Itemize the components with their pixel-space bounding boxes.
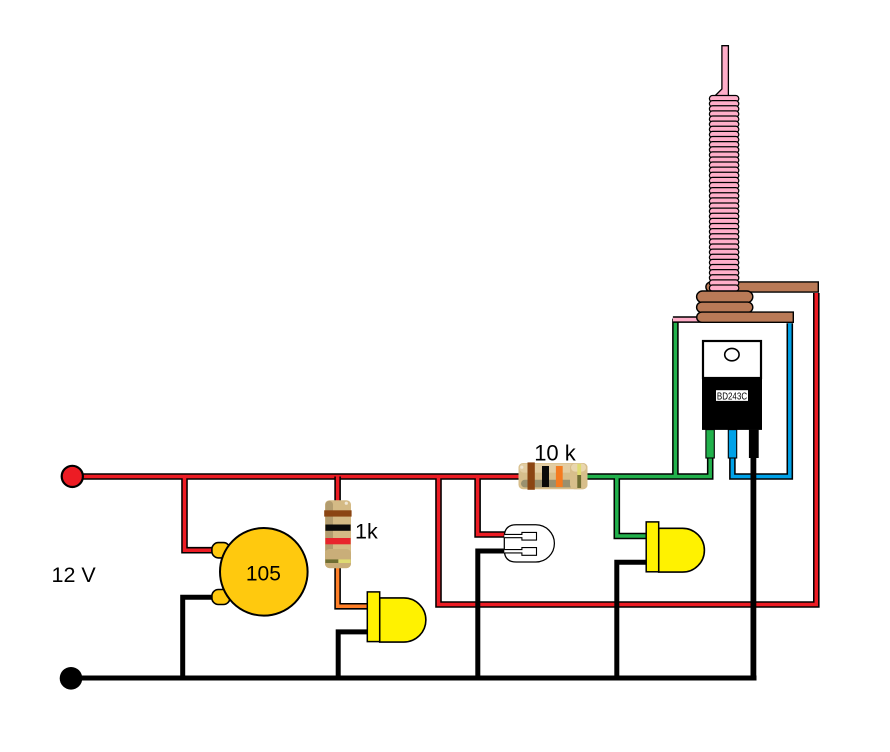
wire: blue collector wire to primary coil outline <box>732 323 789 476</box>
resistor R1 band 4 (gold) <box>577 464 581 488</box>
resistor R2 band 2 (black) <box>325 525 350 531</box>
node: ground terminal (black) <box>60 667 83 690</box>
primary winding turn 2 (brown) <box>697 302 753 312</box>
wire: green base wire from 10k resistor outline <box>586 450 710 477</box>
resistor R2 band 3 (red) <box>325 538 350 544</box>
wire: orange lead from 1k resistor to LED D1 outline <box>338 564 368 606</box>
wire: primary coil bottom lead (brown bar to collector) <box>697 312 794 322</box>
LED D1 flange (yellow) <box>367 592 379 642</box>
wire: red branch to capacitor fill <box>185 477 215 551</box>
resistor R2 band 1 (brown) <box>324 510 351 516</box>
wire: red feed loop to primary coil fill <box>439 293 817 605</box>
wire: red feed loop to primary coil outline <box>439 293 817 605</box>
resistor R1 band 3 (orange) <box>556 466 563 487</box>
wire: secondary coil bottom lead (pink) outline <box>673 316 714 323</box>
wire: blue collector wire to primary coil fill <box>732 323 789 476</box>
resistor R2 band 4 (gold) <box>325 559 350 563</box>
wire: secondary coil top lead (pink) <box>714 46 728 97</box>
wire: orange lead from 1k resistor to LED D1 fill <box>338 564 368 606</box>
indicator lamp cathode lead <box>504 548 536 556</box>
wire: 1k resistor top lead (red) fill <box>336 477 340 506</box>
wire: green branch to LED D2 fill <box>617 477 647 537</box>
node: +12V terminal (red) <box>62 466 83 487</box>
wire: green branch to secondary coil fill <box>674 319 678 477</box>
LED D2 dome (yellow) <box>659 528 705 572</box>
transistor Q1 emitter pin (black) <box>749 430 759 458</box>
wire: red branch to indicator lamp fill <box>478 477 505 535</box>
svg-text:BD243C: BD243C <box>717 392 748 403</box>
transistor Q1 label plate <box>716 390 748 401</box>
svg-text:12 V: 12 V <box>52 563 97 587</box>
capacitor C1 top lead tab <box>212 543 230 558</box>
wire: red branch to indicator lamp outline <box>478 477 505 535</box>
wire: transistor emitter lead to ground <box>751 450 757 681</box>
wire: black branch from indicator lamp <box>478 551 505 680</box>
primary winding turn 1 (brown) <box>697 291 753 303</box>
svg-text:105: 105 <box>246 563 281 586</box>
svg-text:1k: 1k <box>355 520 378 544</box>
svg-text:10 k: 10 k <box>534 440 577 465</box>
wire: black branch from LED D2 <box>617 562 647 680</box>
wire: 1k resistor top lead (red) outline <box>334 477 341 506</box>
wire: +12V rail (red) outline <box>82 473 519 480</box>
transistor Q1 BD243C tab <box>703 341 761 378</box>
resistor R1 10k body <box>519 463 588 489</box>
transistor Q1 base pin (green) <box>706 430 714 458</box>
wire: secondary coil bottom lead (pink) fill <box>673 318 714 322</box>
LED D2 flange (yellow) <box>646 522 659 572</box>
wire: black branch from LED D1 <box>338 632 368 680</box>
indicator lamp (white LED) body <box>504 525 554 562</box>
resistor R2 1k body <box>325 500 351 568</box>
wire: green base wire from 10k resistor fill <box>586 450 710 477</box>
wire: +12V rail (red) fill <box>82 475 519 479</box>
transistor Q1 body <box>702 378 762 430</box>
wire: primary coil top lead (brown bar to red feed) <box>706 282 818 292</box>
secondary coil winding (pink turns) <box>709 96 738 292</box>
wire: ground rail (black) <box>81 676 757 681</box>
resistor R1 band 2 (black) <box>542 466 549 487</box>
resistor R1 band 1 (brown) <box>528 462 535 489</box>
LED D1 dome (yellow) <box>380 598 426 642</box>
wire: green branch to secondary coil outline <box>672 319 679 477</box>
transistor Q1 collector pin (blue) <box>728 430 736 458</box>
capacitor C1 bottom lead tab <box>212 590 230 605</box>
capacitor C1 body <box>220 528 308 616</box>
wire: green branch to LED D2 outline <box>617 477 647 537</box>
wire: red branch to capacitor outline <box>185 477 215 551</box>
transistor Q1 mounting hole <box>725 348 739 360</box>
wire: black branch from capacitor <box>183 597 214 680</box>
indicator lamp anode lead <box>504 532 536 540</box>
